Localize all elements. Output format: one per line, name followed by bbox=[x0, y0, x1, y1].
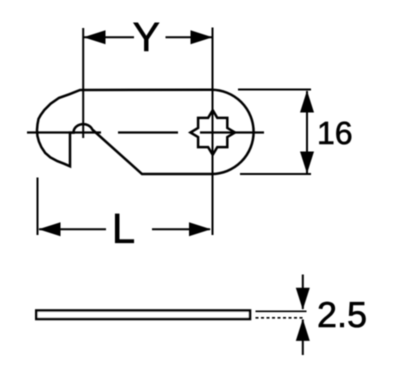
label 16 bbox=[319, 122, 351, 145]
centerline dash through hole bbox=[200, 131, 264, 133]
dimension line Y bbox=[84, 36, 134, 38]
arrowhead L right bbox=[189, 222, 211, 236]
dimension line 2.5 upper bbox=[302, 275, 304, 310]
dimension line 16 bbox=[306, 91, 308, 173]
arrowhead 16 up bbox=[300, 91, 314, 113]
extension line 16 top bbox=[238, 89, 311, 91]
arrowhead Y left bbox=[84, 30, 106, 44]
arrowhead 2.5 down bbox=[296, 288, 310, 310]
extension line 2.5 bottom (dotted) bbox=[256, 317, 305, 319]
cam body outline (top view) bbox=[37, 90, 254, 174]
arrowhead Y right bbox=[191, 30, 213, 44]
star-shaped spindle hole bbox=[190, 110, 235, 155]
dimension line L bbox=[39, 228, 106, 230]
label Y bbox=[134, 23, 160, 51]
extension line Y/L right (long vertical) bbox=[212, 28, 214, 236]
label 2.5 bbox=[319, 302, 366, 327]
dimension line 2.5 lower bbox=[302, 320, 304, 356]
extension line L left bbox=[37, 178, 39, 236]
extension line 2.5 top bbox=[256, 310, 307, 312]
arrowhead 16 down bbox=[300, 152, 314, 174]
extension line Y left bbox=[82, 28, 84, 138]
arrowhead L left bbox=[39, 222, 61, 236]
centerline dash middle bbox=[118, 131, 178, 133]
extension line 16 bottom bbox=[240, 173, 311, 175]
side view bar bbox=[36, 311, 250, 320]
label L bbox=[115, 214, 134, 243]
arrowhead 2.5 up bbox=[296, 319, 310, 341]
centerline dash left bbox=[27, 131, 101, 133]
